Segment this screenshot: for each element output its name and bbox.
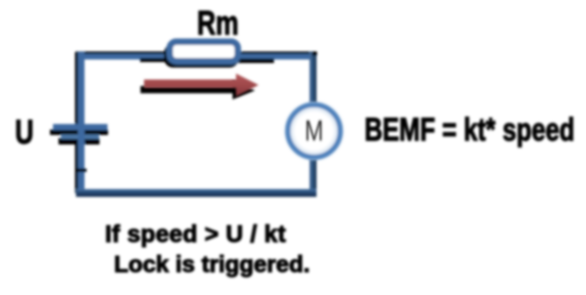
wire left (78, 52, 85, 193)
wire right corner notch (312, 52, 317, 56)
wire top shadow right stub (238, 59, 274, 64)
resistor R shadow (164, 44, 239, 68)
wire top shadow left stub (140, 58, 173, 62)
svg-text:BEMF = kt* speed: BEMF = kt* speed (365, 113, 575, 149)
current arrow shadow (141, 81, 256, 100)
battery long plate (53, 124, 108, 130)
wire right (310, 52, 317, 193)
wire left joint notch (76, 169, 87, 173)
svg-text:Lock is triggered.: Lock is triggered. (114, 251, 310, 277)
wire top (76, 54, 316, 60)
svg-text:U: U (15, 113, 34, 151)
motor glow (285, 102, 343, 160)
wire top shadow (76, 52, 316, 55)
wire bottom (76, 189, 317, 197)
svg-text:Rm: Rm (197, 4, 239, 42)
battery long plate shadow (50, 130, 108, 136)
current arrow (144, 74, 259, 97)
svg-text:M: M (305, 114, 324, 147)
battery short plate (61, 135, 99, 140)
resistor Rm body (170, 42, 238, 62)
battery short plate shadow (59, 138, 100, 145)
motor body (288, 105, 340, 157)
svg-text:If speed > U / kt: If speed > U / kt (105, 221, 286, 248)
battery wire overlay (78, 110, 85, 160)
wire left shadow (75, 52, 78, 193)
